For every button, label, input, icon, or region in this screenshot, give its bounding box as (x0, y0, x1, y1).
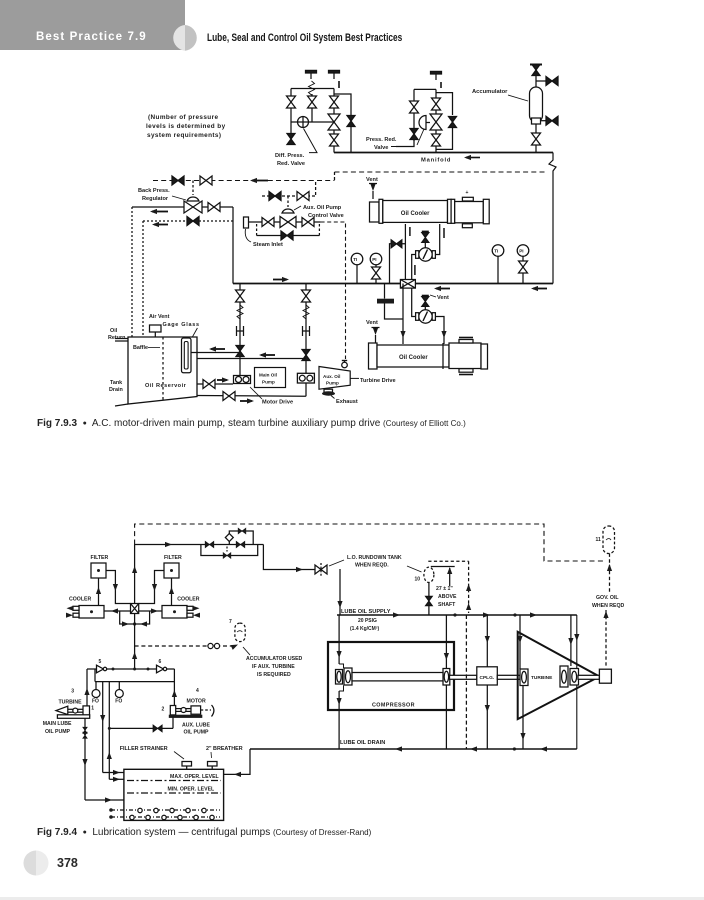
cooler1 to X pipe (104, 610, 131, 612)
oil cooler 2 flange (442, 343, 444, 369)
page number circle (0, 840, 90, 890)
cooler2 feed drop (402, 284, 404, 345)
svg-text:Return: Return (108, 335, 125, 341)
rundown right arrows (466, 584, 471, 591)
cooler2 vent valve (373, 328, 378, 335)
svg-text:ABOVE: ABOVE (438, 594, 457, 600)
drain valve V5 solid (287, 134, 295, 145)
drain drop cplg (486, 685, 488, 749)
svg-text:FILTER: FILTER (91, 555, 109, 561)
accumulator note (246, 656, 303, 678)
supply drop comp right (445, 615, 447, 669)
svg-text:ACCUMULATOR USED: ACCUMULATOR USED (246, 656, 303, 662)
regulator outlet pipe (202, 206, 233, 208)
oil cooler 1 left flange (379, 199, 383, 223)
strainer zigzag 1 (237, 305, 243, 319)
side branch upper (536, 80, 547, 82)
supply drop cplg (486, 615, 488, 667)
U bypass loop (120, 611, 150, 624)
label diff press red valve (275, 153, 305, 167)
supply header upper (135, 544, 204, 546)
svg-text:WHEN REQD.: WHEN REQD. (355, 563, 389, 569)
turbine bearing right (560, 666, 579, 687)
arrow down drop (337, 601, 342, 608)
caption fig 7.9.3 (37, 418, 466, 429)
strainer zigzag 2 (303, 305, 309, 319)
svg-text:IS REQUIRED: IS REQUIRED (257, 672, 291, 678)
gage glass body (182, 338, 192, 373)
dotted return line (143, 220, 233, 222)
valve V3 (330, 96, 339, 108)
lube oil supply line (337, 614, 577, 616)
svg-text:(Number of pressure: (Number of pressure (148, 114, 219, 121)
bypass check valve (391, 240, 402, 248)
turbine triangle (518, 632, 600, 719)
cooler 2 top nub (459, 340, 473, 344)
regulator dome (187, 197, 199, 201)
svg-text:Air Vent: Air Vent (149, 314, 170, 320)
note: pressure levels note text (146, 114, 226, 139)
svg-text:Baffle: Baffle (133, 345, 148, 351)
header circle (0, 0, 220, 60)
pump2 right pipe to cooler2 (435, 317, 444, 345)
bypass jog line (334, 94, 351, 116)
min level line (127, 792, 221, 794)
top dashed control line (135, 524, 605, 561)
oil cooler 2 shell (377, 345, 449, 367)
bottom loop valve (223, 553, 231, 559)
steam line to turbine dashed (321, 222, 346, 359)
filler pointer (174, 752, 184, 760)
top vent valve solid (532, 65, 540, 76)
station valve b (236, 541, 245, 547)
side branch lower (540, 120, 547, 122)
regulator inlet pipe (132, 206, 184, 208)
main oil pump box (255, 368, 286, 388)
aux control drop (315, 182, 317, 196)
check valve CV2 (187, 217, 199, 226)
arrow right supply (165, 542, 172, 547)
aux suction junction (108, 727, 111, 730)
accumulator vessel (530, 87, 543, 122)
PRV branch B1 (413, 89, 415, 141)
oil cooler 1 shell (383, 201, 448, 223)
motor box (191, 706, 201, 714)
svg-text:Oil: Oil (110, 328, 118, 334)
vent stem (372, 191, 374, 199)
svg-text:MAX. OPER. LEVEL: MAX. OPER. LEVEL (170, 774, 220, 780)
main pump riser (86, 669, 88, 706)
svg-text:Manifold: Manifold (421, 158, 451, 164)
TI stem right (497, 256, 499, 283)
step arrow (296, 567, 303, 572)
FO orifice 1 (95, 682, 97, 690)
svg-text:FO: FO (115, 699, 122, 705)
PI gauge right (517, 245, 529, 257)
drain drop comp left (338, 691, 340, 749)
tank drain label (109, 380, 123, 393)
steam fitting on turbine (342, 362, 348, 368)
steam control valve (280, 217, 296, 228)
svg-text:Drain: Drain (109, 387, 123, 393)
pump flange (83, 706, 90, 716)
union ticks (83, 727, 87, 733)
turbine end box (599, 669, 611, 683)
tank bottom drain line (197, 395, 306, 398)
supply drop turb left (519, 615, 521, 669)
valve V16 (302, 218, 314, 227)
globe valve G1 (328, 114, 340, 130)
svg-text:PI: PI (519, 249, 523, 254)
PRV assembly top line (414, 88, 436, 90)
B1 drain elbow (396, 140, 414, 147)
globe valve G2 (430, 114, 442, 130)
svg-text:COOLER: COOLER (69, 597, 91, 603)
arrow left y357 (261, 354, 275, 356)
cplg box (477, 667, 498, 685)
arrow down feed (400, 331, 405, 338)
back press regulator label (138, 188, 170, 202)
arrow down right (574, 634, 579, 641)
bypass check CV3 (281, 231, 293, 240)
svg-text:+: + (466, 190, 469, 196)
top loop diamond (225, 534, 233, 542)
top tee bar (530, 64, 542, 66)
arrow up gov (607, 564, 612, 571)
svg-text:LUBE OIL DRAIN: LUBE OIL DRAIN (340, 740, 385, 746)
aux oil pump turbine body (319, 367, 350, 390)
svg-text:FILLER STRAINER: FILLER STRAINER (120, 746, 168, 752)
valve S2 (302, 290, 311, 302)
breather pointer (210, 752, 213, 758)
svg-text:Motor Drive: Motor Drive (262, 400, 293, 406)
rundown gauge ellipse (424, 567, 434, 582)
bypass check line (390, 244, 406, 284)
riser up arrow (132, 566, 137, 573)
arrow right 2 (436, 288, 450, 290)
station top loop (229, 531, 253, 545)
svg-text:7: 7 (229, 619, 232, 625)
branch line A1 (290, 89, 292, 134)
svg-text:SHAFT: SHAFT (438, 602, 456, 608)
suction valve (203, 380, 215, 389)
rundown drop valve (426, 596, 433, 605)
arrow right suction (217, 379, 227, 381)
pilot header line (291, 121, 334, 123)
svg-text:levels is determined by: levels is determined by (146, 123, 226, 130)
valve V4 (330, 134, 339, 146)
main pump driver cone (56, 706, 68, 714)
valve V7 (410, 101, 419, 113)
pointer line to PRV (391, 146, 414, 148)
aux suction check (153, 725, 162, 732)
vent flag F2 (329, 70, 340, 79)
steam dome stem (287, 196, 289, 207)
valve S1 (236, 290, 245, 302)
riser below X (134, 614, 136, 670)
riser above transfer (134, 545, 136, 604)
suction drop 2 (305, 284, 307, 397)
heater coil row 2 (111, 816, 220, 818)
dashed accumulator 7 (235, 623, 245, 642)
svg-text:11: 11 (596, 537, 602, 543)
svg-text:4: 4 (196, 688, 199, 694)
bottom valve stem (226, 547, 228, 552)
check valve 6 (157, 665, 164, 673)
cooler1 outlet drop (404, 224, 406, 284)
oil cooler 2 right cap (481, 344, 488, 369)
supply drop left (339, 569, 341, 615)
svg-text:TURBINE: TURBINE (59, 700, 83, 706)
comp bearing left (336, 670, 343, 685)
PI valve (372, 267, 381, 279)
header junction dots (112, 668, 115, 671)
mid tank drop (385, 304, 404, 320)
shaft to cplg (450, 675, 477, 679)
svg-text:OIL PUMP: OIL PUMP (45, 729, 71, 735)
regulator stem dashed (192, 181, 194, 196)
control dash line upper (335, 171, 546, 173)
check CVS1 (236, 346, 244, 357)
branch line A2 (311, 94, 313, 122)
comp bearing right (443, 669, 450, 686)
arrow left on pipe (152, 211, 168, 213)
compressor shaft (352, 673, 443, 681)
branch line A3 (333, 89, 335, 153)
supply drop comp left (338, 615, 340, 664)
cooler 1 water nubs (73, 606, 79, 610)
arrow up at F2 (338, 81, 340, 88)
TI gauge left (351, 253, 363, 265)
turbine bearing left (520, 669, 528, 686)
cooler2 vent stem (375, 335, 377, 343)
valve V9 (432, 98, 441, 110)
breather cap (208, 762, 218, 767)
pump1 vent valve (422, 230, 429, 232)
pump2 vent valve (422, 295, 429, 297)
svg-text:GOV. OIL: GOV. OIL (596, 595, 619, 601)
cooler 2 bottom nub (459, 369, 473, 373)
orifice circles (208, 643, 213, 648)
oil cooler 2 right shell (449, 343, 481, 369)
vent pointer mid (430, 295, 436, 297)
flow tick 2 (414, 265, 416, 275)
rundown pointer (329, 560, 344, 566)
reservoir tank fig2 (124, 769, 224, 820)
pump1 left pipe to X (412, 255, 416, 280)
valve V17 (297, 192, 309, 201)
svg-text:LUBE OIL SUPPLY: LUBE OIL SUPPLY (341, 609, 391, 615)
check valve CV1 (172, 176, 184, 185)
mid small tank stem (384, 284, 386, 299)
pump shaft + coupling (68, 708, 83, 710)
accumulator top stem (535, 66, 537, 87)
transfer valve on header (400, 280, 415, 289)
max level line (127, 780, 221, 782)
station valve a (205, 541, 214, 547)
svg-text:Pump: Pump (326, 381, 339, 386)
baffle dashed (162, 337, 164, 402)
cooler 1 top nub (462, 197, 473, 201)
aux pump suction stub (172, 715, 174, 729)
station bottom loop (201, 545, 258, 556)
svg-text:Turbine Drive: Turbine Drive (360, 378, 396, 384)
valve V14 (208, 203, 220, 212)
filter2 side jog (139, 571, 164, 604)
valve V8 solid (410, 129, 418, 140)
svg-text:FO: FO (92, 699, 99, 705)
svg-text:OIL PUMP: OIL PUMP (184, 730, 210, 736)
accumulator pointer (508, 95, 528, 101)
aux coupling box (297, 373, 314, 383)
PI stem right (522, 256, 524, 283)
suction drop 1 (239, 284, 241, 376)
height note (436, 586, 457, 608)
svg-text:2: 2 (162, 707, 165, 713)
svg-text:system requirements): system requirements) (147, 132, 221, 139)
drain arrows (395, 746, 402, 751)
PRV bypass bottom (436, 128, 453, 149)
flow tick (409, 227, 411, 236)
aux coupling (176, 708, 191, 710)
TI gauge right (492, 245, 504, 257)
svg-text:Pump: Pump (262, 380, 275, 385)
arrow right 3 (533, 288, 547, 290)
supply step down (263, 545, 316, 570)
riser arrow up low (132, 652, 137, 659)
drain drop comp right (445, 685, 447, 749)
svg-text:3: 3 (71, 689, 74, 695)
rundown dashed box (428, 560, 468, 562)
drain drop turbine (522, 686, 524, 749)
shaft to end box (578, 675, 599, 679)
svg-text:WHEN REQD: WHEN REQD (592, 603, 625, 609)
tank riser B elbow (109, 778, 124, 780)
svg-text:Control Valve: Control Valve (308, 213, 344, 219)
pump suction from tank (197, 383, 233, 385)
svg-text:Aux. Oil Pump: Aux. Oil Pump (303, 205, 342, 211)
arrow into tank (234, 772, 241, 777)
oil cooler 1 right cap (483, 199, 489, 224)
arrow to accumulator (231, 642, 240, 650)
vent valve top (370, 184, 375, 191)
PI valve right (519, 261, 528, 273)
svg-text:Gage Glass: Gage Glass (163, 322, 200, 328)
bypass valve V6 (347, 116, 355, 127)
shaft end bracket (212, 705, 214, 717)
control dash line left (153, 180, 335, 182)
oil cooler 1 right shell (455, 202, 484, 223)
tank riser A elbow (103, 772, 124, 774)
svg-text:5: 5 (99, 659, 102, 665)
dotted drop right (142, 221, 144, 337)
side valve solid upper (546, 77, 558, 86)
relief manifold A top line (291, 88, 334, 90)
compressor casing (328, 642, 454, 710)
arrow right 1 (273, 279, 287, 281)
manifold arrow (466, 157, 480, 159)
union H 1 (237, 326, 244, 336)
pump discharge header (87, 668, 175, 670)
control dash jog (334, 172, 336, 181)
svg-text:(1.4 Kg/CM²): (1.4 Kg/CM²) (350, 626, 380, 632)
drain return elbow (224, 749, 250, 774)
svg-text:Press. Red.: Press. Red. (366, 137, 397, 143)
main pump suction down (84, 718, 86, 800)
svg-text:Exhaust: Exhaust (336, 399, 358, 405)
steam valve dome (282, 209, 294, 213)
riser to main line (232, 207, 234, 284)
dome pointer (417, 129, 424, 145)
svg-text:Red. Valve: Red. Valve (277, 161, 305, 167)
cooler1 to filter1 pipe (98, 578, 100, 606)
svg-text:COOLER: COOLER (177, 597, 199, 603)
main oil header (233, 283, 553, 285)
filter 2 box (164, 563, 179, 578)
PI gauge left (370, 253, 382, 265)
FO orifice 2 (118, 682, 120, 690)
supply right drop (576, 615, 578, 749)
svg-text:Diff. Press.: Diff. Press. (275, 153, 305, 159)
transfer valve X (131, 604, 139, 614)
suction elbow to tank (85, 799, 124, 801)
aux control check CV4 (269, 192, 281, 201)
aux suction line (109, 727, 173, 729)
svg-text:Oil Cooler: Oil Cooler (401, 211, 430, 217)
side valve solid lower (546, 116, 558, 125)
arrow right drain (240, 400, 252, 402)
transfer pump circle 1 (419, 248, 432, 261)
svg-text:MAIN LUBE: MAIN LUBE (43, 721, 72, 727)
manifold line (334, 152, 553, 154)
height arrow (449, 568, 451, 586)
oil return label (108, 328, 125, 341)
svg-text:Accumulator: Accumulator (472, 89, 508, 95)
dashed accumulator 11 (603, 526, 615, 554)
steam pipe (249, 221, 321, 223)
psig label (350, 618, 380, 632)
tank riser B (108, 682, 110, 780)
aux pump riser (173, 669, 175, 706)
svg-text:Vent: Vent (366, 177, 378, 183)
svg-text:Regulator: Regulator (142, 196, 169, 202)
gov oil dashed drop (609, 554, 611, 593)
rundown check valve (315, 565, 327, 574)
gage glass tube (184, 342, 188, 370)
supply arrows (393, 612, 400, 617)
svg-text:2" BREATHER: 2" BREATHER (206, 746, 243, 752)
valve V13 (200, 176, 212, 185)
main lube oil pump label (43, 721, 72, 735)
svg-text:10: 10 (415, 577, 421, 583)
label press red valve (366, 137, 397, 151)
right riser with break (549, 153, 556, 284)
turbine label (530, 672, 557, 680)
aux oil pump control valve label (303, 205, 344, 219)
cooler 1 box (79, 606, 104, 619)
filler cap (182, 762, 192, 767)
pump1 right pipe to cooler (435, 224, 439, 255)
steam label pointer (245, 229, 251, 242)
return line y357 (197, 358, 306, 360)
junction dots (453, 613, 456, 616)
pointer to gauge (407, 566, 422, 572)
pointer to valve (304, 129, 318, 153)
exhaust disc (324, 389, 333, 392)
PRV bypass jog (436, 93, 453, 115)
U arrows (122, 621, 129, 626)
arrow left y351 (211, 348, 225, 350)
